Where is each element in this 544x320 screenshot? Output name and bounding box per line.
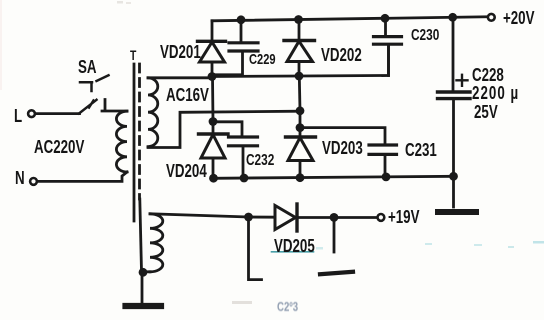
label C230 [411,27,439,45]
wire VD202 anode down to VD203 [298,76,302,111]
label VD202 [321,46,362,64]
transformer T core left [133,64,136,221]
node C228 top on rail [448,13,457,22]
node C231 top [296,123,305,132]
stub below node (erased C?) [333,217,336,252]
secondary winding AC16V [148,78,158,147]
node VD204 anode [209,174,218,183]
label C229 [249,51,276,69]
node lower winding bottom [139,268,148,277]
wire node to ground [141,272,144,302]
wire VD201 top [211,21,214,41]
switch SA upper pole [80,75,109,91]
wire [299,111,302,128]
label AC16V [166,86,209,104]
label N [15,169,25,187]
label VD201 [160,43,201,61]
node VD203 anode [296,173,305,182]
diode VD203 [286,128,316,178]
+19V terminal [378,214,385,221]
node A (VD201 anode / AC16V top) [208,72,217,81]
node VD202 anode [295,72,304,81]
diode VD205 [275,204,376,231]
primary winding AC220V [116,111,127,172]
primary bottom lead to N [38,172,127,181]
lower secondary winding [150,214,163,272]
node VD204 cathode [209,117,218,126]
label C231 [405,141,437,159]
node +19V branch [330,213,339,222]
label L [14,107,22,125]
node VD202 cathode on rail [294,15,303,24]
label C228 [472,66,504,84]
label T [130,46,136,64]
label 25V [474,103,498,121]
node C228 bottom rail junction [449,172,458,181]
ground (C228) [438,209,476,215]
label AC220V [34,138,84,156]
wire node A to VD202 anode and C230 bottom [212,47,389,77]
diode VD204 [199,122,229,179]
label VD203 [322,139,363,157]
floating dash artifact [320,272,353,274]
bottom rail (0V) [213,176,454,178]
wire winding bottom to node [143,270,150,273]
C231 top link [300,128,385,145]
node C230 top on rail [381,14,390,23]
capacitor C232 [229,137,258,178]
wire node A down to VD204 cathode [211,77,214,122]
stub below node (erased C?) [249,217,262,280]
label VD205 [274,237,315,255]
node C231 bottom [382,173,391,182]
node C229 top on rail [237,15,246,24]
primary top lead [102,100,127,112]
capacitor C228 (electrolytic) [438,17,471,207]
label VD204 [166,162,207,180]
capacitor C231 [369,145,397,177]
+20V terminal [488,14,495,21]
VD205 blue underline artifact [272,251,314,253]
wire L to switch [36,112,79,115]
label C232 [246,152,274,170]
label SA [78,58,97,76]
C232 top link [213,122,242,137]
label +19V [388,208,419,226]
transformer T core right (dashed, grounded shield) [138,64,141,199]
switch SA lower pole (in L wire) [79,100,97,114]
N terminal [30,178,37,185]
label 2200u [472,84,519,102]
node secondary-bottom / VD203 [296,106,305,115]
wire lower secondary top to VD205 [150,214,275,217]
node C232 bottom [240,174,249,183]
wire secondary bottom to VD203 (y112) [148,111,300,147]
node VD205 anode side stub [244,213,253,222]
capacitor C229 [214,20,258,75]
label +20V [503,9,534,27]
wire secondary top to node A [148,76,212,79]
top rail +20V [212,17,487,21]
L terminal [28,110,35,117]
faint artifact text [277,298,298,316]
ground (lower winding) [126,303,162,309]
diode VD202 [284,20,315,77]
diode VD201 [198,41,226,76]
capacitor C230 [374,18,402,75]
